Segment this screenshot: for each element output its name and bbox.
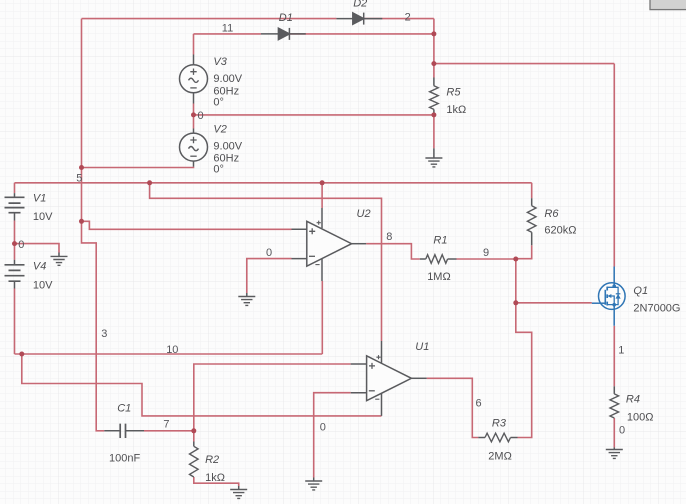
svg-text:1: 1 (618, 345, 624, 357)
wire net3 from branch dot down to C1 (82, 221, 105, 430)
node dot net2/R5 rail (431, 61, 436, 66)
wire gate dot jog down to R3 right (516, 303, 532, 438)
wire U2 positive supply pin up to net5 (321, 183, 323, 208)
wire net11: D1 cathode to node2 vertical (289, 33, 434, 35)
wire net0 from sources midpoint to R5 bottom (194, 114, 434, 116)
svg-text:R1: R1 (433, 235, 447, 247)
diode D1 (261, 28, 306, 40)
wire left vertical x81.5 from top corner down to U2+ branch dot (81, 19, 83, 222)
wire R2 bottom to ground (194, 477, 239, 486)
node dot net5 jog (147, 180, 152, 185)
svg-text:10: 10 (166, 344, 178, 356)
wire net0 between V3 and V2 (193, 104, 195, 129)
svg-text:60Hz: 60Hz (213, 152, 239, 164)
svg-text:60Hz: 60Hz (213, 85, 239, 97)
capacitor C1 (104, 424, 144, 438)
svg-text:D1: D1 (279, 12, 293, 24)
svg-text:V1: V1 (33, 192, 46, 204)
ac source V3 (180, 55, 208, 104)
node dot net9 R6 (513, 257, 518, 262)
svg-text:Q1: Q1 (633, 285, 648, 297)
svg-text:R6: R6 (544, 208, 559, 220)
svg-text:V4: V4 (33, 260, 46, 272)
wire net10 branch to U1 negative supply (22, 354, 382, 416)
wire V4 bottom down to net10 (14, 289, 16, 355)
wire net7 up to U1 plus input (194, 364, 351, 431)
wire net2 top: left corner to D2 anode (82, 18, 337, 20)
wire U2 output to R1 (366, 244, 420, 259)
wire net11: V3 plus corner to D1 anode (194, 33, 261, 35)
svg-text:1kΩ: 1kΩ (205, 472, 225, 484)
wire net5 right corner down to R6 (531, 183, 533, 199)
svg-text:0°: 0° (213, 97, 224, 109)
wire V2 bottom to left vertical (82, 166, 194, 169)
resistor R1 (420, 255, 457, 264)
svg-text:2: 2 (405, 11, 411, 23)
svg-text:1MΩ: 1MΩ (427, 271, 451, 283)
wire R6 bottom to net9 junction (516, 245, 532, 259)
battery V1 (5, 193, 25, 220)
wire net9 R1 right to junction (457, 258, 516, 260)
svg-text:3: 3 (101, 328, 107, 340)
svg-text:7: 7 (163, 419, 169, 431)
node dot net11 at x433.9 (431, 31, 436, 36)
svg-text:R5: R5 (446, 87, 461, 99)
resistor R5 (430, 78, 439, 113)
svg-text:V3: V3 (213, 56, 227, 68)
op-amp U1 (351, 341, 427, 416)
wire V1 top lead (14, 183, 16, 193)
svg-text:1kΩ: 1kΩ (446, 104, 466, 116)
node dot net0 at R5 bottom (431, 112, 436, 117)
svg-text:620kΩ: 620kΩ (544, 224, 576, 236)
wire R5 bottom to ground (433, 113, 435, 149)
svg-text:R3: R3 (492, 418, 507, 430)
svg-text:9.00V: 9.00V (213, 73, 242, 85)
wire U1 minus input to ground (314, 393, 351, 478)
wire R2 top lead (193, 431, 195, 442)
ground at R4 (606, 447, 623, 458)
wire U2 minus input to ground (247, 259, 292, 293)
ground at R5 (425, 148, 442, 167)
svg-text:0: 0 (320, 422, 326, 434)
wire U2 plus input from left branch dot (82, 221, 292, 229)
svg-text:6: 6 (476, 398, 482, 410)
wire net9 down to gate branch dot (515, 259, 517, 303)
wire net10 up to U2 negative supply pin (321, 281, 323, 354)
ground at R2 (230, 486, 247, 498)
wire V4 top lead (14, 244, 16, 260)
svg-text:U1: U1 (415, 341, 429, 353)
svg-text:V2: V2 (213, 124, 226, 136)
svg-text:2N7000G: 2N7000G (633, 303, 680, 315)
node dot net7 R2 top (191, 428, 196, 433)
node dot net10 branch (19, 352, 24, 357)
ground at U1 minus (305, 478, 322, 490)
ground at U2 minus (238, 293, 255, 305)
op-amp U2 (292, 208, 367, 281)
svg-text:2MΩ: 2MΩ (488, 450, 512, 462)
svg-text:D2: D2 (353, 0, 367, 10)
wire V1 bottom to node0 dot (14, 221, 16, 244)
svg-text:9: 9 (483, 247, 489, 259)
wire node0 dot to ground stem (15, 244, 60, 253)
svg-text:0: 0 (266, 247, 272, 259)
resistor R2 (190, 442, 199, 478)
svg-text:U2: U2 (357, 208, 371, 220)
wire net10 horizontal (15, 353, 323, 355)
svg-text:100nF: 100nF (109, 452, 140, 464)
wire from R5 top junction right to far-right rail (434, 63, 614, 65)
wire node2 vertical down to R5 (433, 19, 435, 78)
wire V3 top lead (193, 34, 195, 55)
svg-text:8: 8 (386, 231, 392, 243)
node dot net9 gate branch (513, 300, 518, 305)
svg-text:0: 0 (18, 239, 24, 251)
node dot net3 branch (79, 219, 84, 224)
svg-text:11: 11 (222, 23, 233, 35)
scrollbar corner box top right (650, 0, 686, 10)
wire U1 output to R3 left (427, 378, 479, 437)
svg-text:R2: R2 (205, 454, 219, 466)
wire net5 jog down to U1 positive supply (150, 183, 382, 341)
svg-text:0: 0 (198, 110, 204, 122)
node dot V1 V4 ground (12, 241, 17, 246)
svg-text:10V: 10V (33, 279, 53, 291)
wire net5 horizontal rail (15, 182, 532, 184)
resistor R6 (527, 198, 536, 245)
ground at V1 V4 (51, 253, 68, 266)
svg-text:5: 5 (76, 172, 82, 184)
svg-text:0: 0 (619, 425, 625, 437)
node dot net5 U2 supply (320, 180, 325, 185)
ac source V2 (180, 129, 208, 167)
wire R4 bottom to ground (613, 418, 615, 447)
svg-text:100Ω: 100Ω (627, 411, 654, 423)
battery V4 (5, 260, 25, 289)
resistor R3 (478, 433, 517, 442)
wire net2 top: D2 cathode to right corner (364, 18, 434, 20)
wire net7 C1 right to R2 top dot (144, 430, 194, 432)
diode D2 (336, 13, 382, 25)
wire far right rail down to Q1 drain (613, 64, 615, 267)
svg-text:10V: 10V (33, 211, 53, 223)
wire Q1 source down to R4 (613, 326, 615, 387)
svg-text:R4: R4 (626, 393, 640, 405)
resistor R4 (610, 386, 619, 418)
mosfet Q1 (592, 267, 625, 326)
svg-text:9.00V: 9.00V (213, 140, 242, 152)
node dot net0 between V3 V2 (191, 112, 196, 117)
svg-text:0°: 0° (213, 164, 224, 176)
wire gate branch to Q1 gate (516, 302, 592, 304)
svg-text:C1: C1 (117, 402, 131, 414)
node dot V2 bottom to left vertical (79, 165, 84, 170)
